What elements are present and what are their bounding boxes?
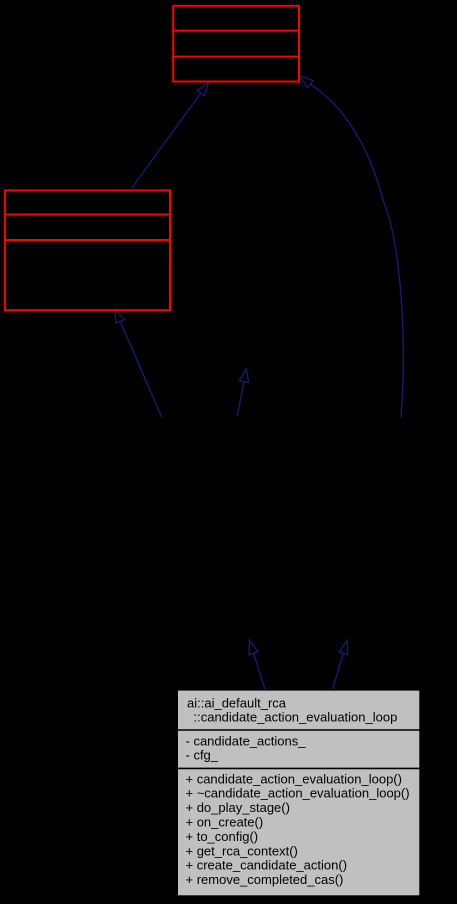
svg-text:+ get_rca_context(): + get_rca_context() (186, 843, 298, 858)
svg-text:+ to_config(): + to_config() (186, 829, 259, 844)
svg-text:+ candidate_action_evaluation_: + candidate_action_evaluation_loop() (186, 771, 402, 786)
svg-text:ai::ai_default_rca: ai::ai_default_rca (187, 696, 287, 711)
svg-text:- candidate_actions_: - candidate_actions_ (186, 733, 307, 748)
svg-text:- cfg_: - cfg_ (186, 748, 219, 763)
svg-text:+ create_candidate_action(): + create_candidate_action() (186, 858, 348, 873)
svg-text:+ remove_completed_cas(): + remove_completed_cas() (186, 872, 344, 887)
svg-text:+ on_create(): + on_create() (186, 815, 264, 830)
svg-text:+ do_play_stage(): + do_play_stage() (186, 800, 290, 815)
svg-text:+ ~candidate_action_evaluation: + ~candidate_action_evaluation_loop() (186, 786, 410, 801)
svg-text:::candidate_action_evaluation_: ::candidate_action_evaluation_loop (194, 710, 398, 725)
